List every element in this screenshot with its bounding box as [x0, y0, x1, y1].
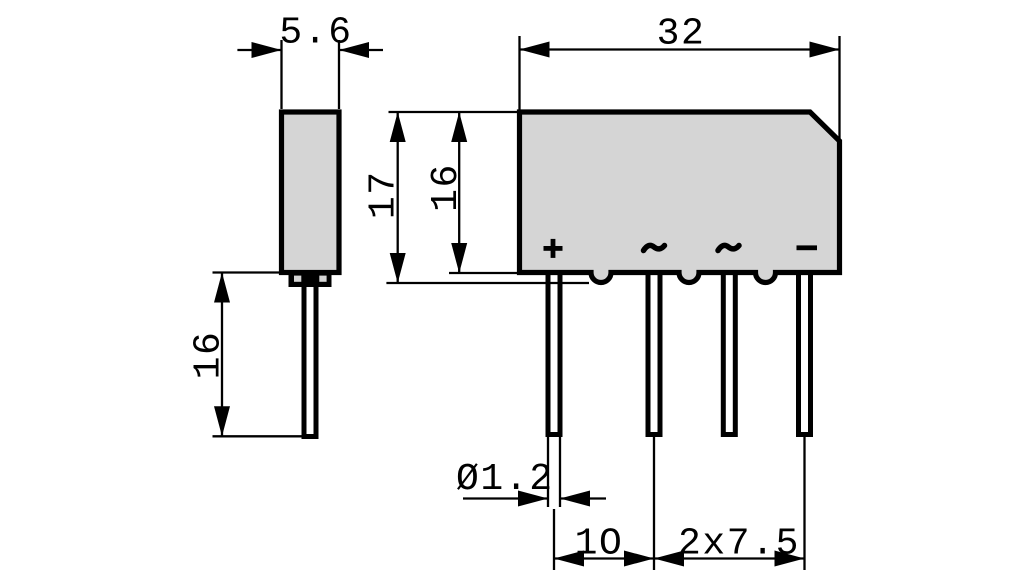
extension line 5.6 right: [338, 40, 340, 109]
extension line pin diameter left: [547, 435, 549, 507]
svg-text:2x7.5: 2x7.5: [678, 523, 800, 566]
svg-text:5.6: 5.6: [279, 12, 352, 55]
dimension 17: [363, 112, 406, 283]
pin 4 (-) front view: [799, 270, 811, 435]
extension line 32 left: [518, 36, 520, 110]
svg-text:1O: 1O: [575, 523, 624, 566]
pin 3 (~) front view: [723, 270, 735, 435]
pin 1 (+) front view: [548, 270, 560, 435]
dimension 16 side (pin length): [188, 273, 231, 437]
dimension 2x7.5: [654, 523, 805, 567]
extension line pin 1 centre: [553, 509, 555, 570]
minus label: [797, 245, 818, 250]
tilde label 1: [644, 245, 665, 250]
side view pin: [304, 280, 316, 437]
dimension 16 front: [425, 112, 468, 273]
svg-text:16: 16: [425, 163, 468, 212]
dimension 10: [554, 523, 654, 567]
extension line top of body (17/16): [389, 111, 521, 113]
tilde label 2: [718, 245, 739, 250]
extension line 16 side bottom: [213, 435, 304, 437]
dimension 5.6: [237, 12, 383, 59]
side view standoff foot: [289, 270, 332, 287]
extension line 32 right: [838, 36, 840, 141]
extension line 5.6 left: [280, 40, 282, 109]
extension line pin 2 centre: [653, 437, 655, 570]
extension line pin diameter right: [559, 435, 561, 507]
front view body with chamfered corner and standoff bumps: [520, 112, 840, 283]
svg-text:16: 16: [188, 331, 231, 380]
extension line bottom of body (16 front): [449, 272, 519, 274]
plus label: [544, 239, 563, 258]
dimension diameter 1.2: [456, 458, 606, 507]
pin 2 (~) front view: [648, 270, 660, 435]
side view body: [282, 112, 340, 273]
dimension 32: [520, 13, 840, 58]
svg-text:Ø1.2: Ø1.2: [456, 458, 554, 501]
extension line 16 side top: [213, 271, 282, 273]
extension line pin 4 centre: [803, 437, 805, 570]
svg-text:32: 32: [657, 13, 706, 56]
svg-text:17: 17: [363, 170, 406, 219]
extension line standoff plane (17): [386, 282, 589, 284]
